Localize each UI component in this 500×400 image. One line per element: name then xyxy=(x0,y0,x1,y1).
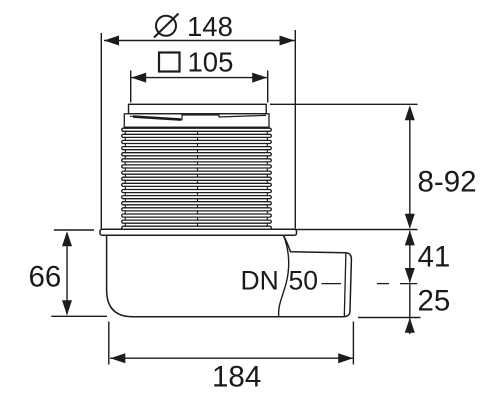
arrow 41 top xyxy=(405,230,415,245)
svg-text:DN: DN xyxy=(241,265,279,295)
dim line 66 xyxy=(66,233,68,315)
extension line grate top to right dim xyxy=(270,103,418,105)
label Ø 148 xyxy=(154,11,233,42)
svg-text:25: 25 xyxy=(418,285,451,318)
extension line right of 184 xyxy=(352,322,354,365)
label DN 50 xyxy=(241,265,318,295)
flange xyxy=(100,229,297,235)
bayonet ring xyxy=(124,114,269,127)
rib stack side edges xyxy=(124,128,126,229)
centerline of outlet (dash-dot) xyxy=(322,283,418,285)
extension line flange top to left (66 dim) xyxy=(54,229,94,231)
ribs xyxy=(122,128,272,229)
arrow 66 top xyxy=(62,231,72,246)
arrow 41 bottom xyxy=(405,268,415,283)
grate top plate xyxy=(129,104,267,114)
extension line right of □105 xyxy=(267,71,269,103)
arrow Ø148 right xyxy=(280,36,295,46)
extension line body bottom to right (25 dim) xyxy=(358,317,421,319)
dim line 41 xyxy=(409,231,411,283)
extension line flange top to right (41 dim) xyxy=(297,229,418,231)
arrow Ø148 left xyxy=(104,36,119,46)
extension line body bottom to left (66 dim) xyxy=(51,315,107,317)
arrow □105 right xyxy=(252,73,267,83)
dim line Ø148 xyxy=(104,40,295,42)
body right silhouette curve xyxy=(279,235,289,316)
label □ 105 xyxy=(159,46,233,77)
extension line left of 184 xyxy=(108,322,110,365)
rib stack center line xyxy=(197,128,199,229)
arrow 8-92 bottom xyxy=(405,214,415,229)
dim line 25 xyxy=(409,284,411,334)
arrow 8-92 top xyxy=(405,105,415,120)
svg-text:8-92: 8-92 xyxy=(418,165,477,198)
arrow 66 bottom xyxy=(62,300,72,315)
dim line 8-92 xyxy=(409,107,411,228)
svg-text:184: 184 xyxy=(212,361,261,394)
arrow 184 left xyxy=(110,353,125,363)
arrow 25 bottom (outside, pointing up) xyxy=(405,318,415,333)
extension line left of Ø148 xyxy=(100,33,102,229)
extension line left of □105 xyxy=(130,71,132,103)
svg-text:105: 105 xyxy=(188,46,234,77)
svg-text:41: 41 xyxy=(418,241,451,274)
extension line right of Ø148 xyxy=(294,30,296,229)
body and outlet pipe outline xyxy=(107,235,352,317)
arrow □105 left xyxy=(131,73,146,83)
svg-text:50: 50 xyxy=(289,266,318,296)
svg-text:66: 66 xyxy=(29,261,62,294)
dim line 184 xyxy=(110,357,353,359)
svg-text:148: 148 xyxy=(187,11,233,42)
arrow 184 right xyxy=(338,353,353,363)
outlet pipe end inner line xyxy=(344,253,346,317)
dim line □105 xyxy=(131,77,267,79)
